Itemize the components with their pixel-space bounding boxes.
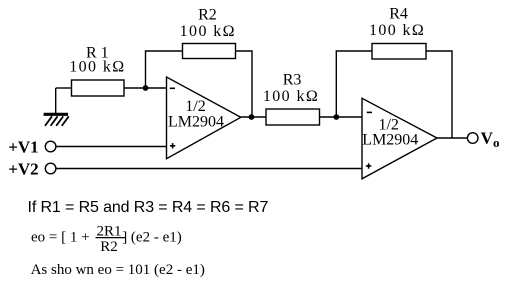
svg-text:R2: R2 [100,239,118,255]
svg-text:100 kΩ: 100 kΩ [369,22,425,39]
svg-text:+V2: +V2 [8,160,38,179]
svg-text:LM2904: LM2904 [168,113,224,130]
svg-text:As sho wn eo = 101 (e2 - e1): As sho wn eo = 101 (e2 - e1) [31,262,205,278]
svg-text:+V1: +V1 [8,138,38,157]
svg-text:R3: R3 [283,72,302,89]
svg-text:] (e2 - e1): ] (e2 - e1) [122,230,182,246]
svg-text:V: V [481,129,494,148]
svg-text:o: o [493,135,500,150]
svg-text:100 kΩ: 100 kΩ [180,23,236,40]
svg-text:If R1 = R5 and R3 = R4 = R6 =: If R1 = R5 and R3 = R4 = R6 = R7 [28,199,269,216]
svg-text:LM2904: LM2904 [362,132,418,149]
svg-text:R2: R2 [198,7,217,24]
svg-text:100 kΩ: 100 kΩ [69,59,125,76]
svg-text:eo = [ 1 +: eo = [ 1 + [31,230,90,246]
svg-text:100 kΩ: 100 kΩ [263,88,319,105]
svg-text:R4: R4 [389,5,408,22]
